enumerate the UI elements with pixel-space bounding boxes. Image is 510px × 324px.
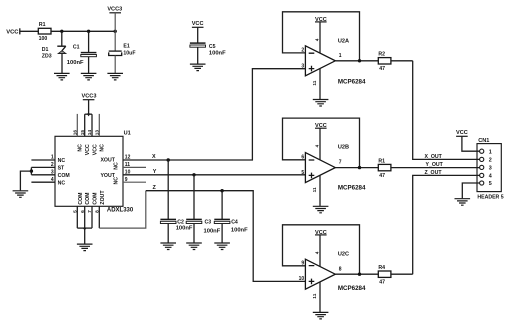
svg-text:1: 1 bbox=[339, 53, 342, 59]
U2A pin 4 bbox=[314, 22, 320, 53]
wire bbox=[391, 60, 413, 62]
resistor R1 47 bbox=[378, 158, 391, 179]
svg-text:3: 3 bbox=[301, 63, 304, 69]
U1 pin 10 YOUT bbox=[100, 170, 130, 179]
CN1 pin 4 bbox=[480, 173, 492, 179]
wire VCC to pin 1 bbox=[462, 136, 480, 151]
U1 pin 4 NC bbox=[31, 177, 65, 186]
svg-text:VCC: VCC bbox=[456, 130, 468, 136]
ground bbox=[13, 191, 29, 198]
svg-text:C5: C5 bbox=[209, 44, 216, 50]
svg-text:3: 3 bbox=[489, 166, 492, 172]
ground bbox=[160, 243, 176, 250]
svg-text:100nF: 100nF bbox=[204, 228, 221, 234]
U1 pin 9 NC bbox=[113, 177, 146, 185]
port VCC bbox=[6, 28, 20, 35]
svg-text:4: 4 bbox=[489, 174, 492, 180]
CN1 pin 5 bbox=[480, 181, 492, 187]
svg-text:MCP6284: MCP6284 bbox=[338, 285, 366, 292]
svg-text:1: 1 bbox=[51, 155, 54, 161]
svg-text:NC: NC bbox=[78, 144, 84, 152]
svg-text:COM: COM bbox=[92, 192, 98, 204]
wire pins 15-14 tie bbox=[85, 113, 92, 115]
CN1 pin 1 bbox=[480, 149, 492, 155]
svg-text:ADXL330: ADXL330 bbox=[107, 208, 134, 214]
ground bbox=[190, 64, 206, 71]
wire to ground bbox=[84, 228, 86, 244]
svg-text:NC: NC bbox=[58, 180, 66, 186]
ground bbox=[107, 73, 123, 80]
svg-text:3: 3 bbox=[51, 170, 54, 176]
capacitor C3 100nF bbox=[186, 175, 221, 243]
svg-text:NC: NC bbox=[100, 144, 106, 152]
svg-text:14: 14 bbox=[87, 130, 93, 136]
svg-text:NC: NC bbox=[113, 162, 119, 170]
wire X bbox=[123, 69, 305, 161]
svg-text:10: 10 bbox=[299, 276, 305, 282]
ground bbox=[313, 312, 329, 319]
wire U2A output pin 1 bbox=[335, 53, 378, 61]
power VCC U2C bbox=[315, 230, 327, 236]
junction bbox=[30, 169, 33, 172]
U1 pin 13 NC bbox=[94, 114, 105, 152]
wire U2A feedback bbox=[283, 12, 360, 61]
wire X OUT bbox=[413, 61, 480, 160]
svg-text:VCC: VCC bbox=[192, 21, 204, 27]
junction bbox=[358, 273, 361, 276]
junction bbox=[220, 189, 223, 192]
svg-text:VCC: VCC bbox=[85, 144, 91, 155]
U1 pin 15 VCC bbox=[80, 114, 91, 155]
wire Z route from pin 8 bbox=[99, 191, 146, 228]
svg-text:100: 100 bbox=[39, 36, 48, 42]
wire bbox=[20, 30, 39, 32]
svg-text:ST: ST bbox=[58, 166, 65, 172]
wire bbox=[391, 273, 413, 275]
wire COM tie bbox=[77, 227, 92, 229]
svg-text:MCP6284: MCP6284 bbox=[338, 79, 366, 86]
CN1 pin 2 bbox=[480, 157, 492, 163]
U2A pin 11 bbox=[312, 68, 320, 99]
U2C pin 4 bbox=[314, 235, 320, 267]
svg-text:U1: U1 bbox=[124, 131, 131, 137]
svg-text:47: 47 bbox=[379, 280, 385, 286]
svg-text:COM: COM bbox=[58, 173, 70, 179]
ground bbox=[54, 73, 70, 80]
junction arrow bbox=[83, 228, 87, 231]
U1 pin 8 ZOUT bbox=[94, 190, 106, 228]
svg-text:C1: C1 bbox=[73, 44, 80, 50]
wire pin 5 to ground bbox=[462, 183, 479, 198]
zener diode D1 ZD3 bbox=[42, 31, 66, 73]
wire Z OUT bbox=[413, 170, 480, 274]
ground bbox=[186, 243, 202, 250]
svg-text:Z_OUT: Z_OUT bbox=[425, 170, 443, 176]
power VCC U2B bbox=[315, 123, 327, 129]
svg-text:9: 9 bbox=[301, 261, 304, 267]
svg-text:13: 13 bbox=[94, 130, 100, 136]
svg-text:6: 6 bbox=[301, 155, 304, 161]
svg-text:47: 47 bbox=[379, 173, 385, 179]
wire U2A +input bbox=[252, 68, 305, 70]
op-amp U2B MCP6284 bbox=[305, 145, 366, 192]
svg-text:16: 16 bbox=[72, 130, 78, 136]
svg-text:11: 11 bbox=[312, 80, 318, 85]
svg-text:8: 8 bbox=[339, 266, 342, 272]
power VCC3 bbox=[107, 6, 122, 12]
svg-text:VCC: VCC bbox=[92, 144, 98, 155]
svg-text:4: 4 bbox=[314, 251, 320, 254]
svg-text:E1: E1 bbox=[123, 44, 129, 50]
svg-text:4: 4 bbox=[314, 145, 320, 148]
op-amp U2A MCP6284 bbox=[305, 38, 366, 85]
connector CN1 HEADER 5 bbox=[477, 138, 504, 200]
svg-text:R1: R1 bbox=[39, 22, 46, 28]
op-amp U2C MCP6284 bbox=[305, 251, 366, 292]
svg-text:COM: COM bbox=[78, 192, 84, 204]
wire U2C output pin 8 bbox=[335, 266, 378, 274]
svg-text:C2: C2 bbox=[177, 219, 184, 225]
power VCC CN1 bbox=[456, 130, 468, 136]
svg-text:Y_OUT: Y_OUT bbox=[426, 162, 444, 168]
svg-text:U2C: U2C bbox=[338, 251, 349, 257]
ground bbox=[77, 244, 93, 251]
U1 pin 12 XOUT bbox=[100, 155, 130, 164]
U1 pin 14 VCC bbox=[87, 114, 98, 155]
IC U1 ADXL330 bbox=[55, 131, 134, 214]
U2C pin 11 bbox=[312, 282, 320, 312]
U1 pin 2 ST bbox=[31, 162, 65, 171]
svg-text:COM: COM bbox=[85, 192, 91, 204]
wire to ground bbox=[20, 171, 31, 190]
svg-text:U2B: U2B bbox=[338, 145, 349, 151]
junction bbox=[358, 166, 361, 169]
ground bbox=[313, 100, 329, 107]
svg-text:NC: NC bbox=[113, 177, 119, 185]
wire Y OUT bbox=[391, 162, 480, 168]
U2B pin 11 bbox=[312, 175, 320, 206]
ground bbox=[81, 73, 97, 80]
svg-text:X_OUT: X_OUT bbox=[425, 154, 443, 160]
svg-text:7: 7 bbox=[339, 160, 342, 166]
junction bbox=[167, 158, 170, 161]
svg-text:2: 2 bbox=[301, 48, 304, 54]
svg-text:5: 5 bbox=[72, 210, 78, 213]
ground bbox=[214, 243, 230, 250]
resistor R1 bbox=[38, 22, 51, 42]
capacitor C5 100nF bbox=[190, 27, 226, 63]
power VCC3 (U1) bbox=[82, 93, 97, 99]
U2B pin 4 bbox=[314, 128, 320, 160]
wire U2B output pin 7 bbox=[335, 160, 378, 168]
svg-text:11: 11 bbox=[312, 293, 318, 298]
svg-text:5: 5 bbox=[489, 181, 492, 187]
resistor R2 47 bbox=[378, 52, 391, 73]
capacitor C4 100nF bbox=[214, 191, 248, 243]
junction bbox=[192, 173, 195, 176]
svg-text:U2A: U2A bbox=[338, 38, 349, 44]
resistor R4 47 bbox=[378, 265, 391, 286]
svg-text:6: 6 bbox=[80, 210, 86, 213]
svg-text:X: X bbox=[152, 154, 156, 160]
svg-text:10uF: 10uF bbox=[123, 51, 135, 57]
junction bbox=[358, 59, 361, 62]
capacitor C1 100nF bbox=[67, 31, 97, 73]
U1 pin 5 COM bbox=[72, 192, 83, 228]
wire bbox=[51, 30, 115, 32]
svg-text:5: 5 bbox=[301, 170, 304, 176]
svg-text:100nF: 100nF bbox=[209, 50, 226, 56]
junction arrow bbox=[87, 113, 91, 116]
U1 pin 16 NC bbox=[72, 114, 83, 152]
svg-text:Y: Y bbox=[153, 169, 157, 175]
svg-text:15: 15 bbox=[80, 130, 86, 136]
svg-text:VCC3: VCC3 bbox=[107, 6, 122, 12]
svg-text:47: 47 bbox=[379, 66, 385, 72]
wire U2B feedback bbox=[283, 118, 360, 168]
svg-text:C4: C4 bbox=[231, 219, 238, 225]
U1 pin 1 NC bbox=[31, 155, 65, 164]
svg-text:D1: D1 bbox=[42, 47, 49, 53]
svg-text:R4: R4 bbox=[378, 265, 385, 271]
ground bbox=[455, 199, 471, 206]
svg-text:HEADER 5: HEADER 5 bbox=[477, 194, 503, 200]
svg-text:7: 7 bbox=[87, 210, 93, 213]
svg-text:MCP6284: MCP6284 bbox=[338, 184, 366, 191]
svg-text:100nF: 100nF bbox=[176, 226, 193, 232]
svg-text:2: 2 bbox=[51, 162, 54, 168]
svg-text:9: 9 bbox=[125, 177, 128, 183]
svg-text:100nF: 100nF bbox=[231, 228, 248, 234]
svg-text:NC: NC bbox=[58, 158, 66, 164]
svg-text:2: 2 bbox=[489, 158, 492, 164]
svg-text:11: 11 bbox=[312, 187, 318, 192]
svg-text:4: 4 bbox=[51, 177, 54, 183]
U1 pin 11 NC bbox=[113, 162, 146, 170]
svg-text:R2: R2 bbox=[378, 52, 385, 58]
ground bbox=[313, 206, 329, 213]
svg-text:4: 4 bbox=[314, 38, 320, 41]
svg-text:R1: R1 bbox=[378, 158, 385, 164]
U1 pin 6 COM bbox=[80, 192, 91, 228]
svg-text:11: 11 bbox=[125, 162, 131, 168]
U1 pin 3 COM bbox=[31, 170, 69, 179]
svg-text:C3: C3 bbox=[205, 219, 212, 225]
wire ST-COM tie bbox=[30, 167, 32, 174]
wire bbox=[114, 13, 116, 32]
svg-text:1: 1 bbox=[489, 149, 492, 155]
svg-text:8: 8 bbox=[94, 210, 100, 213]
power VCC (C5) bbox=[192, 21, 204, 27]
U1 pin 7 COM bbox=[87, 192, 98, 228]
CN1 pin 3 bbox=[480, 165, 492, 171]
power VCC U2A bbox=[315, 17, 327, 23]
svg-text:VCC3: VCC3 bbox=[82, 93, 97, 99]
wire Y bbox=[123, 169, 305, 175]
svg-text:100nF: 100nF bbox=[67, 60, 84, 66]
svg-text:CN1: CN1 bbox=[478, 138, 489, 144]
wire Z bbox=[146, 185, 306, 282]
wire bbox=[88, 100, 90, 114]
junction bbox=[114, 30, 117, 33]
junction bbox=[87, 30, 90, 33]
wire U2C feedback bbox=[283, 225, 360, 274]
capacitor E1 10uF bbox=[109, 31, 136, 73]
svg-text:ZD3: ZD3 bbox=[42, 54, 52, 60]
svg-text:ZOUT: ZOUT bbox=[100, 190, 106, 205]
capacitor C2 100nF bbox=[160, 160, 193, 243]
junction bbox=[60, 30, 63, 33]
svg-text:VCC: VCC bbox=[6, 30, 19, 36]
